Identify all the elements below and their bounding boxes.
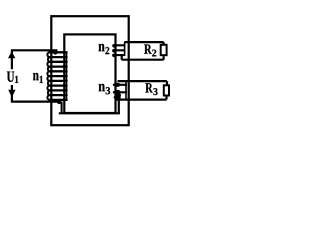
label R3 letter R: [145, 83, 152, 92]
resistor R2 box: [161, 45, 167, 55]
wire: n2 bottom wire to R2: [122, 55, 164, 60]
coil n3 bars: [113, 85, 127, 93]
junction dot n3 exit: [116, 93, 121, 98]
coil n1 left bumps: [47, 52, 49, 100]
label U1 subscript 1: [15, 76, 18, 83]
wire: top wire U1 to coil n1: [11, 49, 58, 51]
wire: bottom wire U1 to coil n1: [11, 100, 61, 102]
coil n1 bars: [49, 52, 68, 100]
wire: n3 exit stub down to core bottom: [118, 95, 120, 114]
resistor R3 stubs: [165, 81, 168, 100]
wire: n3 top wire to R3: [118, 80, 168, 82]
label n2 letter n: [99, 44, 105, 51]
coil n3 left turn blobs: [114, 83, 121, 87]
resistor R3 box: [164, 85, 169, 95]
transformer core inner rectangle: [64, 34, 115, 113]
wire: n3 bottom wire to R3: [115, 98, 167, 100]
label n1 letter n: [33, 73, 39, 80]
resistor R2 stubs: [163, 42, 165, 60]
arrow up (U1 top): [8, 51, 15, 58]
coil n2 bars: [113, 45, 126, 55]
wire: left stub from bottom wire down to core bottom: [61, 102, 63, 114]
label n3 letter n: [99, 84, 105, 91]
coil n2 left turn blobs: [112, 44, 116, 48]
transformer core outer rectangle: [51, 16, 128, 125]
label R2 letter R: [144, 45, 152, 54]
label R3 subscript 3: [153, 88, 157, 95]
coil n1 right edge steps: [66, 52, 68, 100]
label n3 subscript 3: [106, 87, 110, 94]
core inner bottom line (extended): [59, 112, 120, 114]
junction dot bottom (wire to n1): [57, 100, 61, 104]
label U1 letter U: [7, 72, 14, 82]
arrow down (U1 bottom): [8, 90, 15, 97]
coil n2 right edge: [124, 42, 126, 55]
junction dot top (wire to n1): [53, 50, 57, 54]
label R2 subscript 2: [152, 50, 156, 57]
wire: U1 vertical line (broken for label): [11, 50, 13, 101]
wire: n2 top wire to R2: [124, 41, 163, 43]
coil n3 right edge: [125, 81, 127, 100]
label n1 subscript 1: [40, 76, 43, 83]
label n2 subscript 2: [105, 47, 109, 54]
